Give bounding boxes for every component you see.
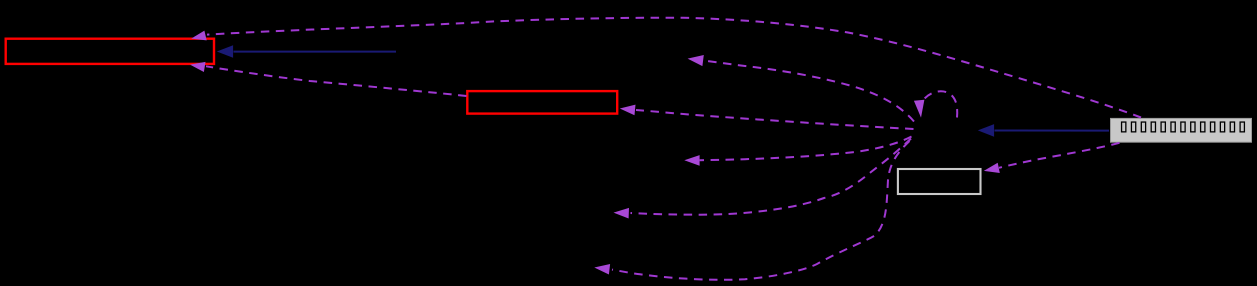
arrowhead E4 at box2 right	[620, 105, 636, 116]
arrowhead E6	[684, 155, 699, 166]
edge E9: dashed self-loop on hidden node	[925, 91, 958, 117]
arrowhead E5	[688, 55, 704, 66]
edge E6: dashed from hidden node left to hidden target (arrow at 684,160)	[700, 137, 912, 161]
arrowhead E1 at box1 top	[191, 31, 207, 41]
edge E8: dashed from hidden node swinging down to hidden target (arrow at 594,267)	[612, 141, 910, 280]
edge E7: dashed from hidden node down-left to hidden target (arrow at 613,212)	[631, 139, 912, 215]
arrowhead E11 at white box	[984, 163, 1000, 173]
edge E5: dashed from hidden node up-left to hidden target (arrow at 687,58)	[704, 61, 914, 122]
arrowhead E8	[594, 264, 610, 275]
arrowhead E7	[614, 208, 630, 219]
edge E4: dashed from hidden node to box2 right edge	[636, 110, 914, 129]
node box3 (white-bordered node)	[898, 169, 981, 194]
arrowhead E10	[978, 124, 994, 137]
arrowhead E9 (points down into hidden node top)	[914, 100, 925, 118]
node box2 (red truncated node, middle)	[467, 91, 617, 114]
edge E3: solid navy arrow into box1 right edge	[234, 51, 397, 53]
edge E10: solid navy from gray node left to hidden node right	[995, 130, 1110, 132]
node box1 (red truncated node, top-left)	[6, 39, 214, 64]
arrowhead E2 at box1 bottom	[190, 62, 206, 72]
tofu glyphs (13 missing-glyph boxes)	[1122, 122, 1245, 132]
edge E2: dashed from box2 left to box1 bottom-right	[206, 66, 467, 96]
node main (gray filled node with tofu glyph label)	[1111, 118, 1252, 142]
edge E11: dashed from gray node bottom to white box right edge	[999, 143, 1120, 168]
arrowhead E3	[217, 45, 233, 58]
edge E1: dashed arc from gray node top to box1 top-right	[207, 18, 1141, 118]
